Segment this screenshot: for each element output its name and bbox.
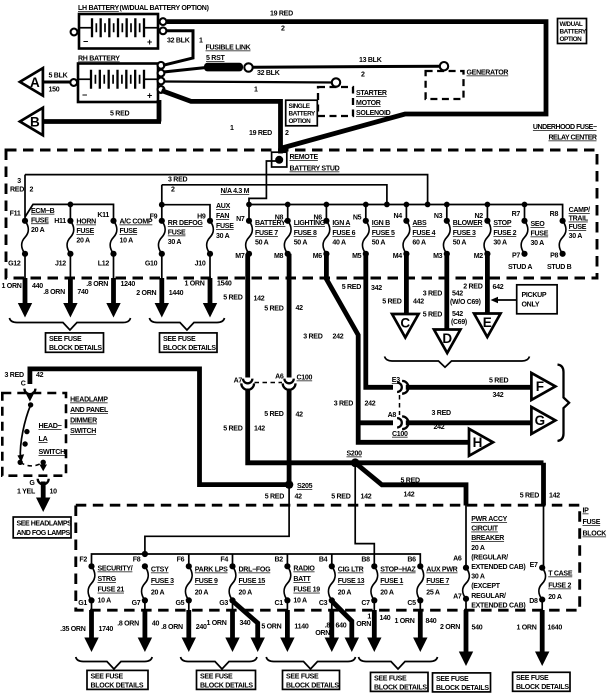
svg-text:2 ORN: 2 ORN [440,624,460,631]
svg-text:FUSE 19: FUSE 19 [293,587,320,594]
svg-text:ORN: ORN [315,630,330,637]
svg-text:(W/DUAL BATTERY OPTION): (W/DUAL BATTERY OPTION) [120,5,209,12]
svg-text:M5: M5 [352,253,362,260]
RH battery left terminal [70,79,77,86]
svg-text:N8: N8 [275,215,284,222]
svg-text:F2: F2 [79,557,87,564]
svg-text:2: 2 [285,130,289,137]
underhood fuse-relay center dashed box [6,150,597,278]
svg-text:FUSE: FUSE [531,231,549,238]
svg-text:SEE FUSE: SEE FUSE [163,336,196,343]
fuse DRL−FOG 20 A (terminals F4/G3) [219,557,271,608]
brace bottom group 1 [76,657,153,669]
svg-text:STOP: STOP [493,220,511,227]
svg-text:CIRCUIT: CIRCUIT [471,526,499,533]
svg-text:BLOCK DETAILS: BLOCK DETAILS [49,345,102,352]
svg-text:5 RED: 5 RED [331,494,350,501]
svg-text:N5: N5 [353,215,362,222]
svg-text:32 BLK: 32 BLK [167,38,191,45]
svg-text:N6: N6 [313,215,322,222]
wire A to RH battery, 5 BLK 150 [44,81,70,84]
wire 2 ORN 1440 with arrow [136,278,183,318]
splice S205 [285,480,293,488]
svg-text:M2: M2 [474,253,484,260]
svg-text:42: 42 [296,305,304,312]
connector B [20,108,43,136]
svg-text:2: 2 [171,187,175,194]
svg-text:FUSE: FUSE [583,519,601,526]
svg-text:542: 542 [452,291,463,298]
svg-text:SINGLE: SINGLE [289,103,311,110]
svg-text:R7: R7 [512,211,521,218]
svg-text:SEE FUSE: SEE FUSE [516,675,549,682]
fuse RADIO 10 A (terminals B2/C1) [274,557,320,608]
svg-text:20 A: 20 A [151,590,165,597]
svg-text:G10: G10 [145,261,158,268]
svg-text:5 RST: 5 RST [206,55,225,62]
svg-text:(REGULAR/: (REGULAR/ [471,554,508,561]
svg-text:142: 142 [254,426,265,433]
fuse IGN A 40 A (terminals N6/M6) [313,202,356,261]
fuse PARK LPS 20 A (terminals F6/G5) [175,557,228,608]
bus4 extension to CAMP/TRAIL fuse [525,205,563,219]
svg-text:5 RED: 5 RED [423,312,442,319]
svg-text:240: 240 [196,624,207,631]
svg-text:D8: D8 [529,598,538,605]
svg-text:2: 2 [361,72,365,79]
svg-text:HEAD−: HEAD− [39,421,62,430]
svg-text:10 A: 10 A [98,597,112,604]
svg-text:STRG: STRG [98,576,117,583]
wire CIG LTR second output with arrow [332,601,352,640]
svg-text:−: − [82,90,87,100]
svg-text:5 RED: 5 RED [110,111,129,118]
connector C [392,314,419,338]
svg-text:SEO: SEO [531,221,546,228]
svg-text:5 RED: 5 RED [265,494,284,501]
svg-text:50 A: 50 A [372,240,386,247]
svg-text:GENERATOR: GENERATOR [467,70,509,77]
svg-text:30 A: 30 A [216,233,230,240]
svg-text:1: 1 [199,38,203,45]
svg-text:3 RED: 3 RED [168,177,187,184]
svg-text:RR DEFOG: RR DEFOG [168,220,204,227]
svg-text:SEE FUSE: SEE FUSE [91,673,124,680]
svg-text:640: 640 [336,623,347,630]
svg-text:HORN: HORN [76,219,96,226]
svg-text:FUSE 6: FUSE 6 [332,230,355,237]
junction F9 sub-bus [159,202,165,208]
svg-text:3 RED: 3 RED [423,291,442,298]
svg-text:BLOCK DETAILS: BLOCK DETAILS [200,682,253,689]
svg-text:50 A: 50 A [294,240,308,247]
wire .8 ORN 640 with arrow [315,600,347,652]
junction bus2 drop [384,202,390,208]
svg-text:SEE FUSE: SEE FUSE [436,676,469,683]
svg-text:25 A: 25 A [426,590,440,597]
svg-text:FUSE 7: FUSE 7 [426,578,449,585]
svg-text:1: 1 [254,87,258,94]
wire 13 BLK 2 to generator [252,66,444,67]
svg-text:10 A: 10 A [293,597,307,604]
svg-text:FUSE 15: FUSE 15 [239,578,266,585]
svg-text:C100: C100 [297,375,313,382]
svg-text:SWITCH: SWITCH [70,428,96,435]
svg-text:19 RED: 19 RED [270,11,293,18]
svg-text:10 A: 10 A [120,238,134,245]
svg-text:SEE HEADLAMPS: SEE HEADLAMPS [17,521,73,528]
svg-text:G7: G7 [132,600,141,607]
svg-text:E7: E7 [530,562,538,569]
svg-text:BATT: BATT [293,576,311,583]
svg-text:FUSE: FUSE [168,230,186,237]
svg-text:242: 242 [365,401,376,408]
svg-text:EXTENDED CAB): EXTENDED CAB) [471,564,525,571]
svg-text:1140: 1140 [294,624,308,631]
svg-text:G: G [535,413,546,428]
svg-text:STUD B: STUD B [547,264,572,271]
svg-text:5 RED: 5 RED [264,306,283,313]
junction H11 sub-bus [68,202,74,208]
svg-text:IGN B: IGN B [372,220,390,227]
connector E [474,314,501,338]
svg-text:.8 ORN: .8 ORN [86,281,108,288]
wire 2 ORN 540 with arrow (PWR ACCY out) [440,599,483,666]
svg-text:G1: G1 [78,600,87,607]
svg-text:G12: G12 [8,261,21,268]
svg-text:32 BLK: 32 BLK [257,70,281,77]
svg-text:F8: F8 [133,557,141,564]
fuse ABS 60 A (terminals N4/M4) [393,202,436,261]
connector H [469,429,493,456]
fuse STOP 30 A (terminals N2/M2) [474,202,517,261]
svg-text:30 A: 30 A [493,240,507,247]
svg-text:SEE FUSE: SEE FUSE [49,336,82,343]
svg-text:40: 40 [152,621,160,628]
svg-text:N4: N4 [393,213,402,220]
wire S200 to T CASE fuse 5 RED 142 [541,463,546,506]
svg-text:F4: F4 [220,557,228,564]
svg-text:CIG LTR: CIG LTR [338,567,364,574]
svg-text:3 RED: 3 RED [432,410,451,417]
wire M4 5 RED 442 to C [404,254,409,314]
wire IP bus stub [286,554,288,567]
fuse AUX 30 A (terminals H9/J10) [195,203,235,268]
svg-text:BREAKER: BREAKER [471,535,504,542]
svg-text:REGULAR/: REGULAR/ [471,593,506,600]
svg-text:A/C COMP: A/C COMP [120,219,153,226]
svg-text:5 RED: 5 RED [520,493,539,500]
fuse SECURITY/ 10 A (terminals F2/G1) [78,557,133,608]
svg-text:H11: H11 [54,218,66,225]
svg-text:M8: M8 [274,253,284,260]
fuse BATTERY 50 A (terminals N7/M7) [235,202,286,261]
fuse CTSY 20 A (terminals F8/G7) [132,557,175,608]
svg-text:W/DUAL: W/DUAL [560,21,583,28]
svg-text:1 YEL: 1 YEL [17,489,36,496]
svg-text:10: 10 [50,489,58,496]
svg-text:FAN: FAN [216,213,229,220]
svg-text:60 A: 60 A [412,240,426,247]
svg-text:LH BATTERY: LH BATTERY [78,5,119,12]
dashed link A7-A6 same connector [255,382,283,384]
svg-text:FUSE 21: FUSE 21 [98,587,125,594]
wire .8 ORN 40 with arrow [117,600,159,652]
svg-text:+: + [147,91,152,101]
wire 19 RED 2 top run [167,22,546,148]
svg-text:542: 542 [452,311,463,318]
svg-text:P7: P7 [512,253,520,260]
svg-text:MOTOR: MOTOR [356,100,381,107]
svg-text:1740: 1740 [99,626,114,633]
svg-text:2 ORN: 2 ORN [136,290,156,297]
svg-text:50 A: 50 A [453,240,467,247]
svg-text:FUSE 9: FUSE 9 [195,578,218,585]
svg-text:3: 3 [17,178,21,185]
remote battery stud [272,152,287,167]
svg-text:5 RED: 5 RED [342,284,361,291]
connector E3 [397,383,402,392]
wire M2 2 RED 642 to E [485,254,490,314]
starter solenoid terminal [332,78,340,86]
svg-text:20 A: 20 A [195,590,209,597]
svg-text:J10: J10 [195,261,206,268]
headlamp switch dashed box [2,393,66,476]
svg-text:5 RED: 5 RED [489,378,508,385]
svg-text:SWITCH: SWITCH [39,447,66,456]
connector F [531,373,555,400]
box SEE FUSE BLOCK DETAILS (top mid) [160,333,218,352]
brace bottom group 4 [359,657,438,669]
wire .8 ORN 1240 with arrow [86,278,135,318]
wire 1 ORN 1540 with arrow [184,278,231,318]
svg-text:A7: A7 [453,594,462,601]
svg-text:540: 540 [472,625,483,632]
svg-text:42: 42 [295,494,303,501]
wire fuse output [69,254,71,278]
svg-text:1 ORN: 1 ORN [206,620,226,627]
svg-text:1: 1 [230,125,234,132]
svg-text:STARTER: STARTER [356,90,387,97]
box SEE HEADLAMPS AND FOG LAMPS [13,517,71,538]
starter motor solenoid dashed box [318,87,353,116]
svg-text:A: A [30,75,40,90]
svg-text:M6: M6 [313,253,323,260]
svg-text:K11: K11 [97,212,109,219]
svg-text:1240: 1240 [121,281,136,288]
svg-text:A7: A7 [234,378,243,385]
svg-text:BATTERY: BATTERY [560,29,588,36]
svg-text:FUSE 3: FUSE 3 [151,578,174,585]
wire 1 ORN 340 with arrow [206,600,250,652]
svg-text:BLOCK DETAILS: BLOCK DETAILS [286,682,339,689]
svg-text:BLOCK DETAILS: BLOCK DETAILS [91,682,144,689]
connector A6 C100 [284,379,293,384]
svg-text:ECM−B: ECM−B [31,208,55,215]
RH battery right terminal 2 [158,70,165,77]
wire M7 5 RED 142 to connector A7 and S200 [245,254,250,378]
svg-text:.8 ORN: .8 ORN [117,621,139,628]
svg-text:FUSE: FUSE [31,217,49,224]
svg-text:E: E [483,315,492,330]
fuse SEO 30 A (terminals R7/P7) [512,202,549,260]
svg-text:FUSE 8: FUSE 8 [294,230,317,237]
svg-text:1440: 1440 [169,290,184,297]
svg-text:OPTION: OPTION [560,36,583,43]
svg-text:342: 342 [493,392,504,399]
wire .35 ORN 1740 with arrow [60,600,113,652]
wire ECM-B sub-bus to HORN and A/C COMP [25,204,114,218]
svg-text:N3: N3 [434,213,443,220]
wire .8 ORN 740 with arrow [43,278,88,318]
box SINGLE BATTERY OPTION [286,100,318,126]
wire S200 down to IP bus 5 RED 142 [355,463,374,567]
wire IP bus stub [331,554,333,567]
svg-text:20 A: 20 A [239,590,253,597]
svg-text:A6: A6 [453,556,462,563]
wire S200 to PWR ACCY breaker 5 RED 142 [355,463,466,506]
svg-text:2 RED: 2 RED [463,283,482,290]
svg-text:340: 340 [240,620,251,627]
svg-text:AUX: AUX [216,203,231,210]
LH battery right terminal upper [160,18,167,25]
svg-text:142: 142 [404,491,415,498]
svg-text:1 ORN: 1 ORN [2,283,22,290]
circuit breaker PWR ACCY (A6/A7) [453,556,469,602]
bus 3 RED 2 upper (bus1) [25,175,428,205]
junction IP bus at CTSY [142,551,148,557]
wire bus2 drop to RR DEFOG/AUX FAN sub-bus [161,185,163,219]
wire fuse output [209,254,211,278]
svg-text:F9: F9 [150,214,158,221]
svg-text:BATTERY: BATTERY [289,110,317,117]
svg-text:RADIO: RADIO [293,566,315,573]
svg-text:STUD A: STUD A [508,264,532,271]
svg-text:F6: F6 [177,557,185,564]
RH battery right terminal 4 [158,86,165,93]
svg-text:13 BLK: 13 BLK [359,57,383,64]
svg-text:40 A: 40 A [332,240,346,247]
box SEE FUSE BLOCK DETAILS (bottom 4) [371,672,429,691]
svg-text:J12: J12 [55,261,66,268]
fuse T CASE FUSE 2 20 A (terminals E7/D8) [529,562,573,605]
svg-text:FUSE 7: FUSE 7 [255,230,278,237]
svg-text:G5: G5 [175,600,184,607]
wire 1 ORN 440 with arrow [2,278,44,318]
svg-text:AND FOG LAMPS: AND FOG LAMPS [17,530,71,537]
svg-text:30 A: 30 A [471,574,485,581]
svg-text:M4: M4 [393,253,403,260]
svg-text:DRL−FOG: DRL−FOG [239,567,272,574]
svg-text:FUSE 2: FUSE 2 [493,230,516,237]
fuse CIG LTR 20 A (terminals B4/C3) [319,557,365,608]
wire M3 542 to D [444,254,449,330]
brace fuse outputs group 2 [149,318,224,330]
box W/DUAL BATTERY OPTION [558,19,587,44]
svg-text:C100: C100 [392,431,408,438]
box PICKUP ONLY with pointer [517,285,557,314]
connector A [20,68,43,96]
svg-text:(EXCEPT: (EXCEPT [471,583,501,590]
svg-text:BLOCK DETAILS: BLOCK DETAILS [516,684,569,691]
svg-text:−: − [83,37,88,47]
svg-text:840: 840 [426,618,437,625]
wire .8 ORN 240 with arrow [161,600,207,652]
svg-text:3 RED: 3 RED [5,372,24,379]
svg-text:SOLENOID: SOLENOID [356,110,391,117]
svg-text:.8: .8 [325,623,331,630]
svg-text:OPTION: OPTION [289,118,312,125]
svg-text:30 A: 30 A [569,233,583,240]
LH battery right terminal lower [160,27,167,34]
svg-text:S205: S205 [297,483,313,490]
box SEE FUSE BLOCK DETAILS (bottom 5) [433,673,491,692]
wire 32 BLK 1 to starter solenoid [164,82,337,83]
svg-text:3 RED: 3 RED [303,334,322,341]
svg-text:C: C [21,381,26,388]
fuse STOP−HAZ 20 A (terminals B8/C7) [361,557,416,608]
svg-text:UNDERHOOD FUSE−: UNDERHOOD FUSE− [533,124,597,131]
wire IP bus stub [188,554,190,567]
svg-text:C5: C5 [407,600,416,607]
svg-text:BLOCK: BLOCK [583,531,608,538]
fuse HORN 20 A (terminals H11/J12) [54,218,96,268]
generator dashed box [426,71,464,99]
dashed link E3-A8 same connector [399,395,401,415]
svg-text:REMOTE: REMOTE [290,154,319,161]
svg-text:CAMP/: CAMP/ [569,207,591,214]
svg-text:M7: M7 [235,253,245,260]
wire 242 branch to connector A8 and G [358,420,393,425]
wire IP bus stub [232,554,234,567]
wire M5 5 RED 342 to connector E3 and F [366,254,393,387]
svg-text:F: F [536,379,544,394]
fuse CAMP/ 30 A (terminals R8/P8) [550,207,590,260]
svg-text:5 ORN: 5 ORN [261,624,281,631]
svg-text:FUSE 1: FUSE 1 [380,578,403,585]
svg-text:IGN A: IGN A [332,220,350,227]
svg-text:FUSE: FUSE [120,228,138,235]
svg-text:B: B [30,115,40,130]
connector A7 [243,379,252,384]
fuse IGN B 50 A (terminals N5/M5) [352,202,395,261]
svg-text:142: 142 [361,494,372,501]
svg-text:20 A: 20 A [471,545,485,552]
svg-text:42: 42 [296,412,304,419]
fuse AUX PWR 25 A (terminals B6/C5) [407,557,457,608]
svg-text:.8 ORN: .8 ORN [43,289,65,296]
svg-text:5 RED: 5 RED [264,411,283,418]
svg-text:142: 142 [254,296,265,303]
wire 1 ORN 840 with arrow [394,600,436,652]
connector G [531,407,555,434]
svg-text:20 A: 20 A [338,590,352,597]
svg-text:20 A: 20 A [76,238,90,245]
svg-text:B8: B8 [361,557,370,564]
svg-text:(C69): (C69) [451,319,467,326]
brace bottom group 2 [181,657,258,669]
svg-text:FUSE 13: FUSE 13 [338,578,365,585]
svg-text:50 A: 50 A [255,240,269,247]
svg-text:H9: H9 [197,214,206,221]
svg-text:(W/O C69): (W/O C69) [450,299,481,306]
svg-text:FUSE 4: FUSE 4 [412,230,435,237]
fuse BLOWER 50 A (terminals N3/M3) [433,202,482,261]
battery LH (W/DUAL option) [79,14,158,49]
IP feed bus [92,554,421,567]
svg-text:3 RED: 3 RED [334,401,353,408]
svg-text:PARK LPS: PARK LPS [195,567,228,574]
